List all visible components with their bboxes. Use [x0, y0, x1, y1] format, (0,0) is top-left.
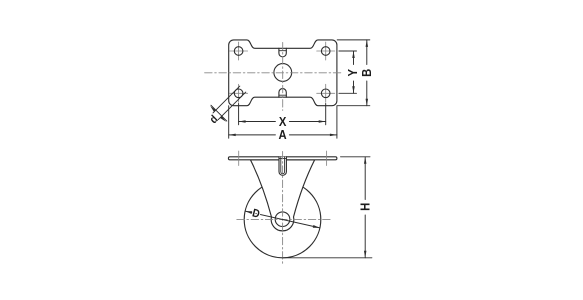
hole bottom-right crosshair — [317, 84, 335, 102]
A extension lines — [229, 106, 337, 139]
Y dimension line — [353, 51, 355, 93]
bolt tick right — [326, 151, 328, 166]
B dimension line — [366, 40, 368, 106]
svg-text:B: B — [359, 68, 374, 77]
Y extension lines — [339, 51, 357, 93]
fork — [250, 160, 314, 231]
H extension top — [341, 156, 371, 158]
hole top-left crosshair — [230, 42, 248, 60]
tab bottom — [279, 89, 286, 98]
hole top-left — [234, 47, 243, 56]
H dimension line — [364, 157, 366, 258]
wheel — [244, 181, 321, 258]
D diameter line — [245, 211, 320, 228]
bolt tick left — [238, 151, 240, 166]
rivet king pin — [279, 157, 286, 176]
centerline-vertical side view — [282, 152, 284, 266]
ground line — [283, 257, 372, 259]
centerline-horizontal side view — [237, 218, 333, 220]
svg-text:Y: Y — [346, 69, 361, 77]
X dimension line — [239, 121, 326, 123]
node centerline-vertical top view — [282, 42, 284, 110]
svg-text:A: A — [278, 127, 287, 142]
node centerline-horizontal top view — [205, 72, 342, 74]
hole top-right crosshair — [317, 42, 335, 60]
tab top — [279, 48, 286, 56]
A dimension line — [229, 134, 337, 136]
svg-text:H: H — [358, 203, 373, 211]
B extension lines — [337, 40, 370, 106]
hole bottom-right — [321, 89, 330, 98]
axle circle — [275, 212, 290, 227]
hole top-right — [321, 47, 330, 56]
plate side view — [228, 157, 337, 160]
hole bottom-left crosshair — [230, 84, 248, 102]
d dimension line with arrows — [211, 105, 227, 121]
X extension lines — [239, 104, 326, 125]
center hole — [274, 64, 292, 82]
hole bottom-left — [234, 89, 243, 98]
plate outline top view — [229, 40, 337, 106]
d callout tangent extension lines — [213, 86, 246, 120]
